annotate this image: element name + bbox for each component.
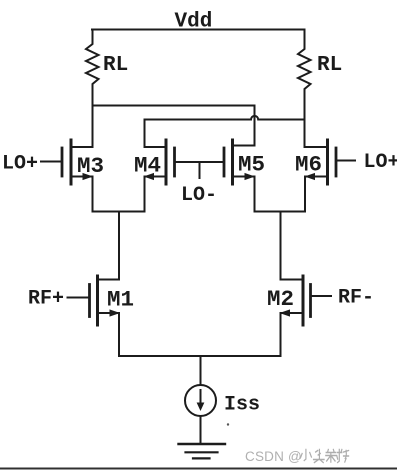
- svg-text:LO-: LO-: [181, 184, 217, 207]
- transistor M6: [305, 140, 336, 184]
- svg-text:RF+: RF+: [28, 288, 64, 311]
- node OUT- (left output) wire down to M3 drain: [92, 88, 94, 147]
- wire M4 source down: [144, 177, 146, 212]
- transistor M2: [281, 276, 311, 325]
- wire right tail down to M2 drain: [280, 212, 282, 280]
- transistor M1: [90, 276, 120, 325]
- bottom border line: [0, 468, 397, 470]
- wire M5 source down: [254, 177, 256, 212]
- wire LO- gate bus M4 to M5: [175, 161, 225, 163]
- svg-text:M6: M6: [295, 152, 322, 178]
- wire bottom source bus: [119, 355, 281, 357]
- wire M6 source down: [304, 177, 306, 212]
- svg-text:RL: RL: [103, 54, 128, 77]
- wire left source bus: [93, 211, 145, 213]
- ground: [179, 444, 226, 458]
- watermark 小头菜籽 (hand-drawn strokes): [300, 450, 348, 463]
- wire RF+ to M1 gate: [68, 297, 90, 299]
- transistor M3: [62, 140, 93, 184]
- svg-text:M1: M1: [107, 287, 134, 313]
- svg-text:M5: M5: [238, 152, 265, 178]
- wire current source to ground: [200, 416, 202, 444]
- current source Iss: [185, 385, 216, 416]
- svg-text:M4: M4: [134, 153, 161, 179]
- svg-text:CSDN @: CSDN @: [245, 449, 302, 464]
- svg-text:M3: M3: [77, 153, 104, 179]
- svg-text:Iss: Iss: [224, 394, 260, 417]
- power rail Vdd: [92, 29, 305, 31]
- speck: [227, 423, 229, 425]
- wire M2 gate to RF-: [311, 295, 332, 297]
- node OUT+ (right output) wire down to M6 drain: [304, 92, 306, 147]
- wire right source bus: [255, 211, 306, 213]
- svg-text:RL: RL: [317, 54, 342, 77]
- svg-text:RF-: RF-: [338, 287, 374, 310]
- wire M1 source down: [118, 313, 120, 356]
- wire left output to M5 drain (cross-coupling): [93, 106, 255, 146]
- wire LO+ to M3 gate: [41, 161, 62, 163]
- wire M2 source down: [280, 313, 282, 356]
- wire M3 source down: [92, 177, 94, 212]
- transistor M5: [224, 140, 255, 184]
- wire LO- stub: [199, 162, 201, 178]
- svg-text:LO+: LO+: [2, 153, 38, 176]
- svg-text:M2: M2: [267, 286, 294, 312]
- wire M6 gate to LO+: [336, 160, 355, 162]
- wire M4 drain to right output (cross-coupling with hop over): [145, 116, 305, 147]
- wire tail to current source: [200, 356, 202, 385]
- transistor M4: [145, 140, 175, 184]
- resistor RL (left): [86, 30, 99, 89]
- resistor RL (right): [298, 30, 311, 93]
- wire left tail down to M1 drain: [118, 212, 120, 280]
- svg-text:Vdd: Vdd: [175, 11, 213, 34]
- svg-text:LO+: LO+: [364, 151, 397, 174]
